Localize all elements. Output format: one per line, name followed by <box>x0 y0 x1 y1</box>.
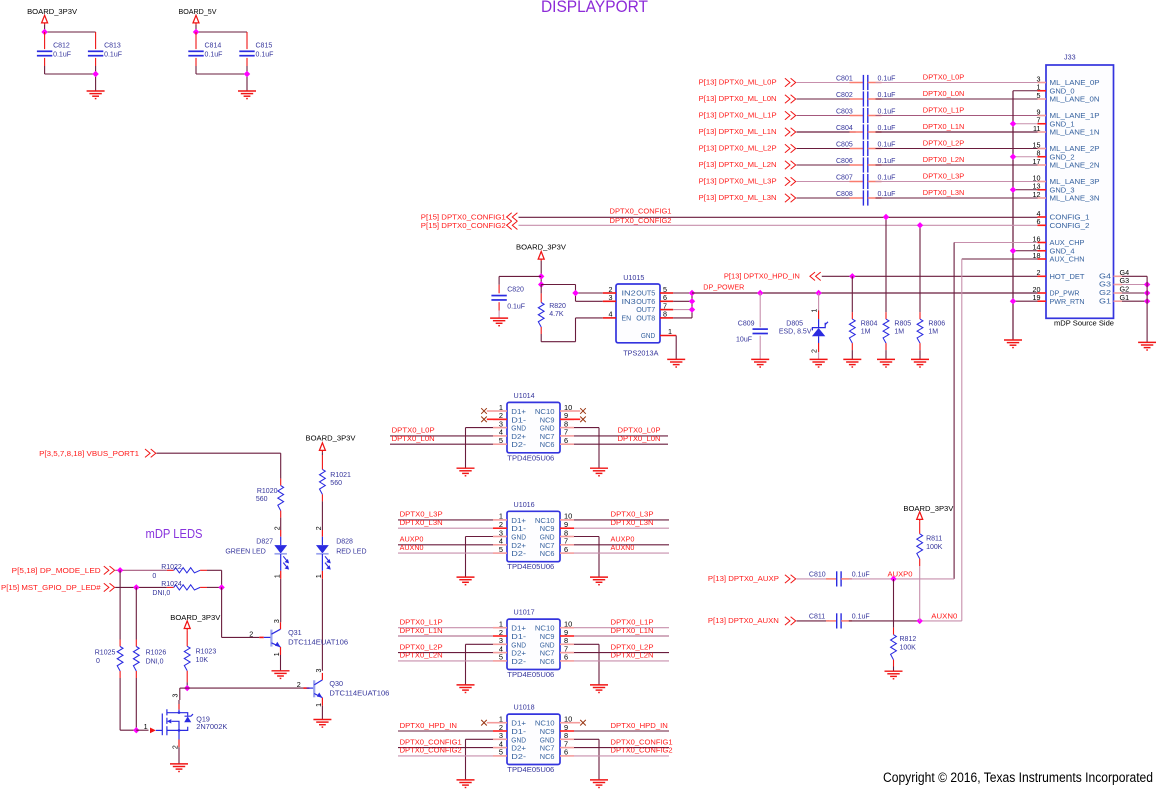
junction <box>538 281 544 287</box>
svg-text:0.1uF: 0.1uF <box>852 571 870 578</box>
wire AUX_CHN <box>962 258 1038 260</box>
svg-text:AUXN0: AUXN0 <box>611 543 635 552</box>
svg-text:C801: C801 <box>836 76 853 83</box>
wire GND bus <box>1012 91 1014 340</box>
svg-text:J33: J33 <box>1064 53 1076 62</box>
pin G2 <box>1114 292 1123 294</box>
ground <box>457 780 475 788</box>
wire <box>876 98 1038 100</box>
svg-text:5: 5 <box>499 748 503 757</box>
svg-text:C815: C815 <box>256 43 273 50</box>
svg-text:G1: G1 <box>1099 296 1111 305</box>
wire <box>44 25 46 32</box>
svg-text:6: 6 <box>564 748 568 757</box>
svg-text:19: 19 <box>1033 293 1041 302</box>
pin 5 D2- <box>493 755 507 757</box>
pin 20 DP_PWR <box>1038 292 1047 294</box>
junction <box>538 273 544 279</box>
wire <box>195 25 197 32</box>
wire <box>876 115 1038 117</box>
svg-text:2: 2 <box>249 629 253 638</box>
resistor R1026 <box>135 587 137 639</box>
wire <box>797 115 856 117</box>
pin 8 GND <box>560 738 574 740</box>
svg-text:DTC114EUAT106: DTC114EUAT106 <box>288 637 348 646</box>
pin 4 D2+ <box>493 544 507 546</box>
ground <box>751 359 769 367</box>
svg-text:0.1uF: 0.1uF <box>878 142 896 149</box>
resistor R805 <box>885 312 887 319</box>
svg-text:AUXP0: AUXP0 <box>888 570 913 579</box>
junction <box>917 618 923 624</box>
junction <box>1010 248 1016 254</box>
svg-text:AUXN0: AUXN0 <box>931 612 957 621</box>
junction <box>193 29 199 35</box>
no-connect <box>580 417 586 423</box>
wire <box>876 181 1038 183</box>
ground <box>457 685 475 693</box>
wire <box>221 587 223 637</box>
svg-text:BOARD_3P3V: BOARD_3P3V <box>516 243 566 252</box>
wire <box>321 501 323 530</box>
svg-text:10uF: 10uF <box>736 337 752 344</box>
wire <box>398 544 493 546</box>
junction <box>133 727 139 733</box>
wire <box>135 678 137 730</box>
svg-text:mDP Source Side: mDP Source Side <box>1054 318 1114 327</box>
svg-text:C804: C804 <box>836 125 853 132</box>
junction <box>1144 281 1150 287</box>
wire <box>574 635 669 637</box>
svg-text:18: 18 <box>1033 251 1041 260</box>
resistor R1022 <box>167 569 174 571</box>
svg-text:2: 2 <box>811 349 818 353</box>
svg-text:P[13] DPTX0_ML_L2N: P[13] DPTX0_ML_L2N <box>699 162 777 169</box>
capacitor C804 <box>850 131 864 133</box>
svg-text:PWR_RTN: PWR_RTN <box>1050 297 1085 306</box>
svg-text:DPTX0_HPD_IN: DPTX0_HPD_IN <box>400 721 457 730</box>
wire <box>115 586 167 588</box>
resistor R812 <box>893 579 895 628</box>
junction <box>1010 121 1016 127</box>
svg-text:5: 5 <box>499 436 503 445</box>
svg-text:C820: C820 <box>507 286 524 293</box>
pin G3 <box>1114 284 1123 286</box>
no-connect <box>580 720 586 726</box>
capacitor C815 <box>246 32 248 49</box>
ground <box>911 359 929 367</box>
svg-text:R812: R812 <box>900 636 917 643</box>
pin 6 NC6 <box>560 660 574 662</box>
junction <box>757 290 763 296</box>
svg-text:DP_POWER: DP_POWER <box>703 282 744 291</box>
svg-text:ESD, 8.5V: ESD, 8.5V <box>779 329 812 336</box>
junction <box>117 567 123 573</box>
svg-text:IN3: IN3 <box>622 297 636 306</box>
svg-text:1M: 1M <box>928 328 938 335</box>
wire <box>1146 276 1148 342</box>
capacitor C820 <box>498 276 500 284</box>
svg-text:DPTX0_CONFIG1: DPTX0_CONFIG1 <box>610 207 672 216</box>
svg-text:C812: C812 <box>53 43 70 50</box>
svg-text:DPTX0_L3N: DPTX0_L3N <box>923 188 965 197</box>
wire DPTX0_HPD_IN <box>822 275 1038 277</box>
pin 1 GND <box>660 335 676 337</box>
svg-text:BOARD_3P3V: BOARD_3P3V <box>170 613 220 622</box>
svg-text:DPTX0_L2N: DPTX0_L2N <box>611 651 654 660</box>
svg-text:DPTX0_L3P: DPTX0_L3P <box>923 172 965 181</box>
pin 7 NC7 <box>560 435 574 437</box>
wire R805 to CONFIG_1 <box>885 217 887 312</box>
pin 1 D1+ <box>493 410 507 412</box>
pin 2 D1- <box>493 527 507 529</box>
pin 18 AUX_CHN <box>1038 258 1047 260</box>
pin 14 GND_4 <box>1038 250 1047 252</box>
wire <box>797 131 856 133</box>
svg-text:DISPLAYPORT: DISPLAYPORT <box>541 0 648 16</box>
svg-text:CONFIG_2: CONFIG_2 <box>1050 221 1090 230</box>
svg-text:0.1uF: 0.1uF <box>104 52 122 59</box>
svg-text:10K: 10K <box>196 657 209 664</box>
svg-text:2: 2 <box>316 526 323 530</box>
ground <box>1138 342 1156 350</box>
wire AUX_CHP <box>954 242 1037 244</box>
wire <box>466 643 494 645</box>
svg-text:U1017: U1017 <box>514 608 535 617</box>
pin 9 NC9 <box>560 730 574 732</box>
svg-text:C813: C813 <box>104 43 121 50</box>
svg-text:D828: D828 <box>336 539 353 546</box>
svg-text:G1: G1 <box>1120 293 1130 302</box>
svg-text:1: 1 <box>811 308 818 312</box>
pin 6 <box>660 300 673 302</box>
pin 7 GND_1 <box>1038 123 1047 125</box>
svg-text:C810: C810 <box>809 571 826 578</box>
ground <box>590 577 608 585</box>
svg-text:ML_LANE_0N: ML_LANE_0N <box>1050 95 1100 104</box>
pin 13 GND_3 <box>1038 189 1047 191</box>
svg-text:U1014: U1014 <box>514 391 535 400</box>
junction <box>184 685 190 691</box>
wire <box>876 164 1038 166</box>
pin 1 D1+ <box>493 519 507 521</box>
svg-text:DPTX0_L0N: DPTX0_L0N <box>923 89 965 98</box>
svg-text:1: 1 <box>668 327 672 336</box>
pin 3 GND <box>493 738 507 740</box>
pin 5 D2- <box>493 443 507 445</box>
svg-text:C814: C814 <box>205 43 222 50</box>
wire <box>186 682 188 688</box>
wire <box>540 261 542 285</box>
svg-text:0.1uF: 0.1uF <box>878 158 896 165</box>
wire <box>398 730 493 732</box>
svg-text:NC6: NC6 <box>540 752 555 761</box>
wire <box>574 747 669 749</box>
junction <box>849 273 855 279</box>
wire <box>1122 300 1147 302</box>
svg-text:DPTX0_L1P: DPTX0_L1P <box>923 106 965 115</box>
svg-text:D2-: D2- <box>511 752 526 761</box>
wire <box>44 66 46 74</box>
wire <box>574 552 669 554</box>
wire <box>574 443 668 445</box>
wire <box>574 652 669 654</box>
junction <box>689 290 695 296</box>
capacitor C810 <box>797 578 830 580</box>
pin 9 NC9 <box>560 418 574 420</box>
wire R804 to HPD <box>851 276 853 312</box>
junction <box>689 306 695 312</box>
wire <box>280 655 282 671</box>
wire <box>136 729 148 731</box>
wire DP_POWER outputs <box>673 292 692 294</box>
svg-text:DPTX0_L2N: DPTX0_L2N <box>400 651 443 660</box>
pin 9 NC9 <box>560 527 574 529</box>
svg-text:R804: R804 <box>861 320 878 327</box>
svg-text:C802: C802 <box>836 92 853 99</box>
svg-text:AUXN0: AUXN0 <box>400 543 424 552</box>
svg-text:6: 6 <box>564 545 568 554</box>
svg-text:D827: D827 <box>256 539 273 546</box>
svg-text:DPTX0_HPD_IN: DPTX0_HPD_IN <box>611 721 668 730</box>
ground <box>457 468 475 476</box>
wire R806 to CONFIG_2 <box>919 225 921 312</box>
wire <box>919 350 921 359</box>
ground <box>590 468 608 476</box>
svg-text:P[15] MST_GPIO_DP_LED#: P[15] MST_GPIO_DP_LED# <box>1 585 101 592</box>
wire DP_POWER <box>692 292 1038 294</box>
pin 3 GND <box>493 536 507 538</box>
wire <box>574 544 669 546</box>
wire <box>541 284 575 286</box>
wire <box>398 747 493 749</box>
svg-text:ML_LANE_2N: ML_LANE_2N <box>1050 161 1100 170</box>
svg-text:0.1uF: 0.1uF <box>507 304 525 311</box>
svg-text:DPTX0_CONFIG2: DPTX0_CONFIG2 <box>400 746 462 755</box>
ground <box>877 359 895 367</box>
wire <box>540 334 542 342</box>
svg-text:OUT8: OUT8 <box>636 314 655 323</box>
svg-text:P[3,5,7,8,18] VBUS_PORT1: P[3,5,7,8,18] VBUS_PORT1 <box>39 451 139 458</box>
svg-text:11: 11 <box>1033 124 1040 133</box>
pin G4 <box>1114 275 1123 277</box>
svg-text:P[13] DPTX0_ML_L0N: P[13] DPTX0_ML_L0N <box>699 96 777 103</box>
pin 15 ML_LANE_2P <box>1038 148 1047 150</box>
wire <box>919 566 921 621</box>
pin 9 NC9 <box>560 635 574 637</box>
pin 5 ML_LANE_0N <box>1038 98 1047 100</box>
svg-text:560: 560 <box>256 496 268 503</box>
capacitor C811 <box>797 620 830 622</box>
pin 11 ML_LANE_1N <box>1038 131 1047 133</box>
wire <box>885 350 887 359</box>
pin 1 D1+ <box>493 722 507 724</box>
wire <box>893 667 895 672</box>
svg-text:P[13] DPTX0_ML_L2P: P[13] DPTX0_ML_L2P <box>699 145 777 152</box>
svg-text:DPTX0_L3N: DPTX0_L3N <box>611 518 654 527</box>
pin 7 <box>660 309 673 311</box>
svg-text:R1021: R1021 <box>330 472 351 479</box>
wire <box>574 527 669 529</box>
junction <box>1010 154 1016 160</box>
svg-text:0.1uF: 0.1uF <box>878 175 896 182</box>
pin 2 D1- <box>493 418 507 420</box>
svg-text:D2-: D2- <box>511 657 526 666</box>
svg-text:EN: EN <box>622 314 632 323</box>
pin G1 <box>1114 300 1123 302</box>
capacitor C802 <box>850 98 864 100</box>
svg-text:2N7002K: 2N7002K <box>196 722 227 731</box>
pin 10 NC10 <box>560 410 574 412</box>
wire <box>466 427 494 429</box>
capacitor C806 <box>850 164 864 166</box>
pin 5 <box>660 292 673 294</box>
wire <box>115 569 167 571</box>
pin 12 ML_LANE_3N <box>1038 197 1047 199</box>
pin 3 GND <box>493 427 507 429</box>
wire AUXN0 <box>849 620 920 622</box>
junction <box>815 290 821 296</box>
capacitor C809 <box>759 293 761 327</box>
svg-text:8: 8 <box>663 310 667 319</box>
svg-text:560: 560 <box>330 480 342 487</box>
wire <box>390 435 493 437</box>
pin 10 ML_LANE_3P <box>1038 181 1047 183</box>
svg-text:0.1uF: 0.1uF <box>878 76 896 83</box>
svg-text:DPTX0_L3N: DPTX0_L3N <box>400 518 443 527</box>
svg-text:1: 1 <box>274 574 281 578</box>
ground <box>313 720 331 728</box>
svg-text:4: 4 <box>609 310 613 319</box>
wire <box>574 730 669 732</box>
wire <box>398 519 493 521</box>
no-connect <box>481 720 487 726</box>
svg-text:P[15] DPTX0_CONFIG2: P[15] DPTX0_CONFIG2 <box>421 223 506 230</box>
svg-text:P[13] DPTX0_AUXP: P[13] DPTX0_AUXP <box>708 576 779 583</box>
svg-text:17: 17 <box>1033 157 1041 166</box>
svg-text:GREEN LED: GREEN LED <box>225 548 265 555</box>
wire <box>876 197 1038 199</box>
pin 7 NC7 <box>560 652 574 654</box>
capacitor C801 <box>850 82 864 84</box>
svg-text:3: 3 <box>173 693 180 697</box>
svg-text:100K: 100K <box>900 645 917 652</box>
svg-text:NC6: NC6 <box>540 657 555 666</box>
pin 8 GND <box>560 536 574 538</box>
ground <box>667 359 685 367</box>
junction <box>917 222 923 228</box>
svg-text:0: 0 <box>152 573 156 580</box>
svg-text:P[15] DPTX0_CONFIG1: P[15] DPTX0_CONFIG1 <box>421 215 506 222</box>
ground <box>843 359 861 367</box>
wire <box>574 427 599 429</box>
svg-text:1M: 1M <box>861 328 871 335</box>
svg-text:R1023: R1023 <box>196 649 217 656</box>
ground <box>490 318 508 326</box>
wire <box>398 527 493 529</box>
wire <box>195 66 197 74</box>
svg-text:0.1uF: 0.1uF <box>205 52 223 59</box>
wire <box>876 148 1038 150</box>
wire <box>574 627 669 629</box>
svg-text:6: 6 <box>564 653 568 662</box>
wire <box>574 660 669 662</box>
svg-text:U1016: U1016 <box>514 500 535 509</box>
svg-text:C806: C806 <box>836 158 853 165</box>
pin 5 D2- <box>493 552 507 554</box>
pin 3 <box>603 300 616 302</box>
resistor R820 <box>540 285 542 294</box>
svg-text:R806: R806 <box>928 320 945 327</box>
svg-text:D2-: D2- <box>511 440 526 449</box>
svg-text:0.1uF: 0.1uF <box>878 92 896 99</box>
wire <box>574 643 599 645</box>
pin 8 GND <box>560 427 574 429</box>
svg-text:DPTX0_L0P: DPTX0_L0P <box>923 73 965 82</box>
svg-text:DPTX0_L1N: DPTX0_L1N <box>923 122 965 131</box>
ground <box>810 359 828 367</box>
wire <box>1122 292 1147 294</box>
junction <box>244 71 250 77</box>
wire <box>675 336 677 360</box>
svg-text:TPD4E05U06: TPD4E05U06 <box>507 765 554 774</box>
wire DPTX0_CONFIG2 <box>519 224 1038 226</box>
ground <box>1004 340 1022 348</box>
pin 3 ML_LANE_0P <box>1038 82 1047 84</box>
svg-text:P[13] DPTX0_ML_L3N: P[13] DPTX0_ML_L3N <box>699 195 777 202</box>
svg-text:0.1uF: 0.1uF <box>852 613 870 620</box>
svg-text:BOARD_3P3V: BOARD_3P3V <box>27 7 77 16</box>
svg-text:AUX_CHN: AUX_CHN <box>1050 255 1085 264</box>
wire <box>574 755 669 757</box>
svg-text:P[13] DPTX0_ML_L3P: P[13] DPTX0_ML_L3P <box>699 178 777 185</box>
junction <box>689 298 695 304</box>
svg-text:GND: GND <box>641 331 655 340</box>
svg-text:NC6: NC6 <box>540 549 555 558</box>
wire <box>398 755 493 757</box>
svg-text:R1022: R1022 <box>161 564 182 571</box>
pin 8 GND <box>560 643 574 645</box>
svg-text:Q30: Q30 <box>329 679 343 688</box>
svg-text:P[13] DPTX0_HPD_IN: P[13] DPTX0_HPD_IN <box>724 274 800 281</box>
ground <box>590 780 608 788</box>
svg-text:DPTX0_L0N: DPTX0_L0N <box>392 434 435 443</box>
resistor R804 <box>851 312 853 319</box>
wire <box>398 635 493 637</box>
wire <box>390 443 493 445</box>
wire <box>797 98 856 100</box>
resistor R1024 <box>167 586 174 588</box>
wire <box>1122 284 1147 286</box>
pin 4 CONFIG_1 <box>1038 216 1047 218</box>
junction <box>883 214 889 220</box>
svg-text:U1018: U1018 <box>514 703 535 712</box>
pin 1 D1+ <box>493 627 507 629</box>
svg-text:R1026: R1026 <box>146 649 167 656</box>
resistor R1020 <box>280 479 282 486</box>
svg-text:0.1uF: 0.1uF <box>878 125 896 132</box>
svg-text:5: 5 <box>1037 91 1041 100</box>
pin 1 GND_0 <box>1038 90 1047 92</box>
wire <box>797 164 856 166</box>
ground <box>457 577 475 585</box>
svg-text:0.1uF: 0.1uF <box>256 52 274 59</box>
wire <box>321 579 323 671</box>
svg-text:R1025: R1025 <box>95 649 116 656</box>
svg-text:R811: R811 <box>926 536 942 543</box>
svg-text:NC6: NC6 <box>540 440 555 449</box>
svg-text:4.7K: 4.7K <box>549 311 564 318</box>
